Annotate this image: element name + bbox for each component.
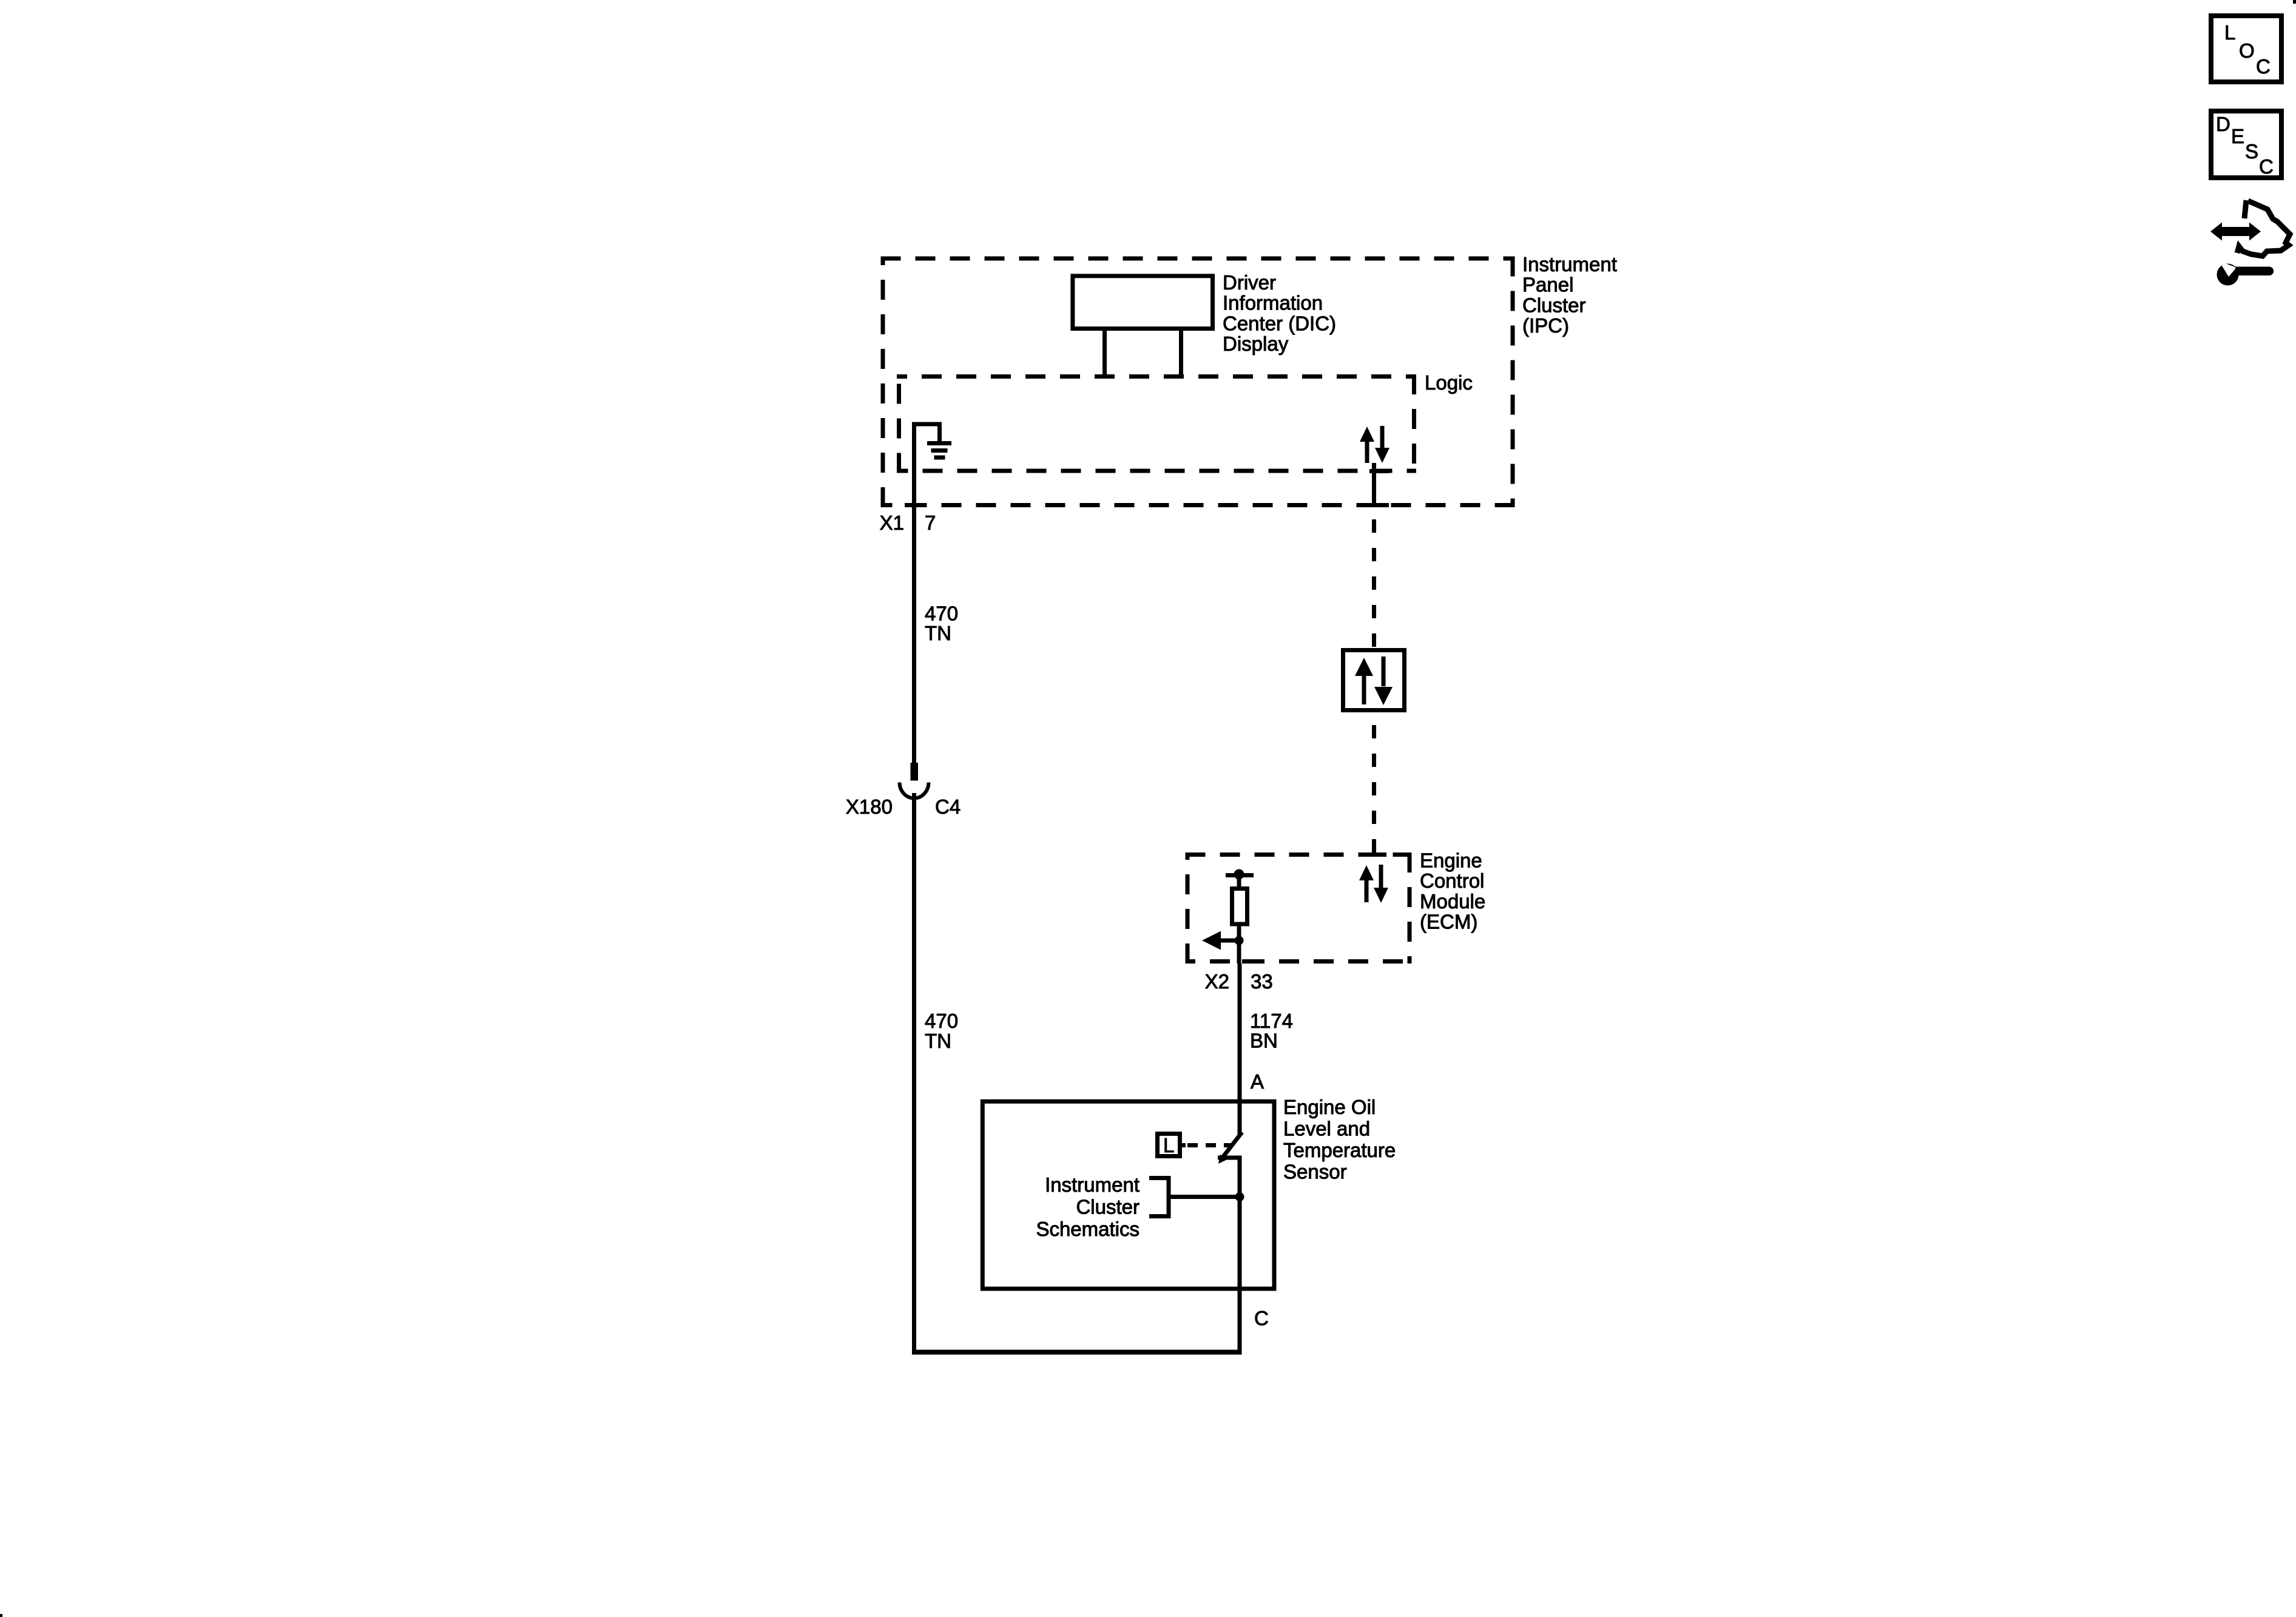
serial data box (in-line connector symbol) <box>1343 650 1405 711</box>
svg-text:Temperature: Temperature <box>1283 1139 1396 1161</box>
svg-text:33: 33 <box>1251 970 1273 993</box>
svg-text:X2: X2 <box>1205 970 1229 993</box>
label: connector X180 <box>846 795 893 818</box>
node: sensor internal junction dot <box>1235 1192 1244 1201</box>
svg-text:C: C <box>1254 1307 1269 1329</box>
svg-text:Engine Oil: Engine Oil <box>1283 1096 1376 1118</box>
wire: sensor internal from contact to pin C <box>1238 1158 1242 1289</box>
svg-text:L: L <box>1163 1134 1174 1156</box>
svg-text:L: L <box>2224 21 2235 44</box>
switch: fixed contact bar <box>1218 1156 1242 1160</box>
svg-text:O: O <box>2239 39 2255 62</box>
svg-text:Control: Control <box>1420 869 1484 892</box>
wire: DIC display left leg <box>1102 329 1107 377</box>
connector X180 C4: male pin <box>911 763 919 781</box>
wire: circuit 1174 BN from ECM pin X2-33 down to sensor pin A <box>1238 964 1242 1136</box>
wire: serial data link through IPC bottom <box>1369 463 1389 507</box>
node: wire crossing ECM bottom edge tick <box>1242 959 1260 964</box>
svg-text:Driver: Driver <box>1223 271 1276 294</box>
label: Logic <box>1425 371 1473 394</box>
arrow: ECM internal measurement arrow pointing left <box>1202 931 1239 950</box>
label: sensor pin A <box>1251 1070 1264 1093</box>
connector X180 C4: female socket arc <box>900 783 929 798</box>
label: connector C4 <box>935 795 961 818</box>
dashed box: Engine Control Module (ECM) <box>1186 852 1412 964</box>
svg-text:X1: X1 <box>880 511 904 534</box>
label: wire value 470 TN (lower) <box>925 1010 958 1052</box>
label: wire value 470 TN (upper) <box>925 603 958 645</box>
node: ECM measuring junction dot <box>1235 936 1244 945</box>
svg-text:Module: Module <box>1420 890 1485 913</box>
label: wire value 1174 BN <box>1250 1010 1293 1052</box>
svg-text:C: C <box>2256 55 2271 78</box>
label: Instrument Panel Cluster (IPC) <box>1522 253 1617 337</box>
dashed box: Logic <box>897 374 1416 473</box>
svg-text:1174: 1174 <box>1250 1010 1293 1032</box>
svg-text:Center (DIC): Center (DIC) <box>1223 312 1336 334</box>
svg-text:Panel: Panel <box>1522 274 1573 296</box>
svg-text:Logic: Logic <box>1425 371 1473 394</box>
wire: circuit 470 TN from connector X180 down to bottom run <box>912 793 916 1354</box>
svg-text:(ECM): (ECM) <box>1420 911 1477 933</box>
icon box: DESC <box>2211 111 2281 178</box>
serial data arrows inside Logic box <box>1360 426 1389 463</box>
svg-text:470: 470 <box>925 603 958 625</box>
label: Instrument Cluster Schematics <box>1036 1173 1140 1240</box>
wire: DIC display right leg <box>1179 329 1183 377</box>
switch: oil level switch blade with arrowhead <box>1218 1132 1242 1164</box>
svg-text:7: 7 <box>925 511 936 534</box>
svg-text:S: S <box>2245 140 2258 163</box>
svg-text:(IPC): (IPC) <box>1522 314 1569 337</box>
svg-text:Instrument: Instrument <box>1045 1173 1140 1196</box>
wire: circuit 470 TN from IPC pin X1-7 down to connector X180 <box>905 458 923 763</box>
node: pin label X2 | 33 <box>1205 970 1273 993</box>
svg-text:C4: C4 <box>935 795 961 818</box>
svg-text:Cluster: Cluster <box>1076 1196 1140 1218</box>
svg-text:BN: BN <box>1250 1030 1278 1052</box>
wire: vertical run from bottom up to sensor pin C <box>1238 1286 1242 1354</box>
wire: bottom horizontal run joining 470 TN to sensor pin C <box>912 1350 1242 1355</box>
wire: dashed serial data line IPC to serial box <box>1372 515 1376 647</box>
svg-text:Sensor: Sensor <box>1283 1161 1347 1183</box>
bracket: instrument cluster schematics reference <box>1149 1178 1169 1217</box>
node: dashed line entering ECM top edge tick <box>1368 852 1386 857</box>
svg-text:Information: Information <box>1223 292 1323 314</box>
wire: dashed serial data line serial box to ECM <box>1372 712 1376 852</box>
mark: top-right page fragment <box>2293 0 2296 4</box>
wire: node to resistor <box>1237 876 1241 888</box>
svg-text:X180: X180 <box>846 795 893 818</box>
wire: dashed actuation link from L box to switch blade <box>1187 1143 1232 1147</box>
dashed box: Instrument Panel Cluster (IPC) <box>881 257 1515 508</box>
node: pin label X1 | 7 <box>880 511 936 534</box>
svg-text:A: A <box>1251 1070 1264 1093</box>
resistor: ECM internal pull-up <box>1232 889 1248 925</box>
ground: IPC logic internal ground symbol <box>914 424 952 461</box>
svg-text:TN: TN <box>925 1030 951 1052</box>
box: Engine Oil Level and Temperature Sensor <box>982 1101 1274 1289</box>
box: Driver Information Center (DIC) Display <box>1073 276 1213 329</box>
svg-text:Instrument: Instrument <box>1522 253 1617 275</box>
node: ECM internal supply node dot <box>1226 869 1254 880</box>
svg-text:Level and: Level and <box>1283 1118 1370 1140</box>
serial data arrows inside serial data box <box>1355 657 1393 705</box>
svg-text:D: D <box>2216 113 2230 135</box>
label: sensor pin C <box>1254 1307 1269 1329</box>
label: Engine Oil Level and Temperature Sensor <box>1283 1096 1396 1183</box>
wire: resistor to measuring junction <box>1237 924 1241 964</box>
svg-text:Engine: Engine <box>1420 849 1482 872</box>
svg-text:E: E <box>2231 125 2244 147</box>
svg-text:Schematics: Schematics <box>1036 1218 1140 1240</box>
svg-text:Display: Display <box>1223 333 1289 355</box>
svg-text:TN: TN <box>925 622 951 644</box>
icon box: LOC <box>2211 16 2281 82</box>
icon: harness repair (double arrow into outline with wrench) <box>2210 200 2290 286</box>
svg-text:Cluster: Cluster <box>1522 294 1586 316</box>
lamp box L (level indicator) <box>1158 1134 1186 1157</box>
mark: bottom-left page fragment <box>0 1614 2 1617</box>
label: Driver Information Center (DIC) Display <box>1223 271 1336 355</box>
svg-text:C: C <box>2259 155 2274 178</box>
label: Engine Control Module (ECM) <box>1420 849 1485 933</box>
serial data arrows inside ECM box <box>1359 865 1388 903</box>
wire: junction to schematics bracket <box>1169 1195 1240 1199</box>
svg-text:470: 470 <box>925 1010 958 1032</box>
